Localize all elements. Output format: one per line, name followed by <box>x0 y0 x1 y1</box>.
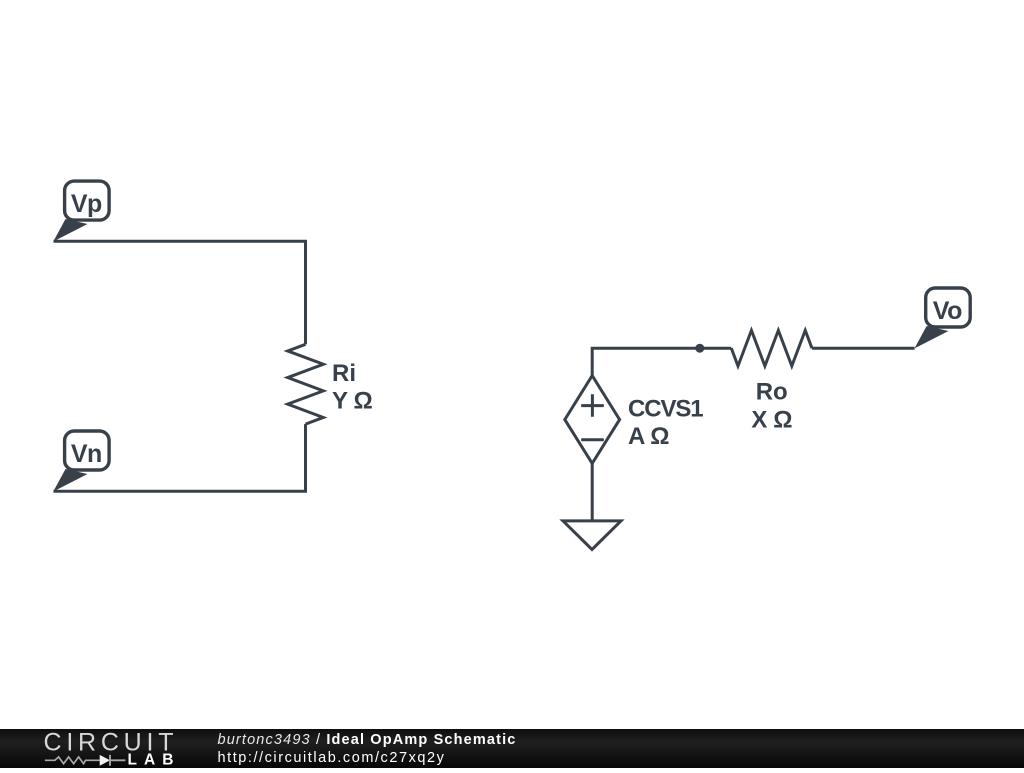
svg-text:Ro: Ro <box>756 379 788 406</box>
svg-text:CCVS1: CCVS1 <box>628 396 703 423</box>
logo diode <box>100 754 110 765</box>
svg-text:A Ω: A Ω <box>628 423 669 450</box>
resistor R1 Ri <box>288 344 324 424</box>
resistor R2 Ro <box>731 330 812 366</box>
flag Vn <box>53 431 109 492</box>
node junction dot <box>695 344 704 353</box>
logo resistor <box>45 756 100 763</box>
footer title text <box>218 731 517 768</box>
svg-text:X Ω: X Ω <box>751 407 792 434</box>
flag Vp <box>53 181 109 241</box>
minus sign <box>581 438 604 441</box>
dependent source CCVS1 diamond <box>565 376 620 464</box>
wire Ro to Vo <box>812 347 915 350</box>
plus sign <box>581 394 604 417</box>
wire Ri to Vn <box>54 424 306 491</box>
wire CCVS1 to Ro <box>592 348 731 375</box>
ground <box>563 521 621 550</box>
wire CCVS1 to ground <box>591 463 594 521</box>
svg-text:LAB: LAB <box>128 751 174 768</box>
svg-text:Ri: Ri <box>332 360 356 387</box>
svg-text:Vn: Vn <box>71 440 102 468</box>
svg-text:Vp: Vp <box>71 190 102 218</box>
svg-text:Y Ω: Y Ω <box>332 387 372 414</box>
logo CIRCUIT LAB <box>0 729 220 769</box>
footer bar <box>0 729 1024 769</box>
svg-text:Vo: Vo <box>933 297 962 325</box>
wire Vp to Ri <box>54 241 306 344</box>
flag Vo <box>915 288 971 348</box>
